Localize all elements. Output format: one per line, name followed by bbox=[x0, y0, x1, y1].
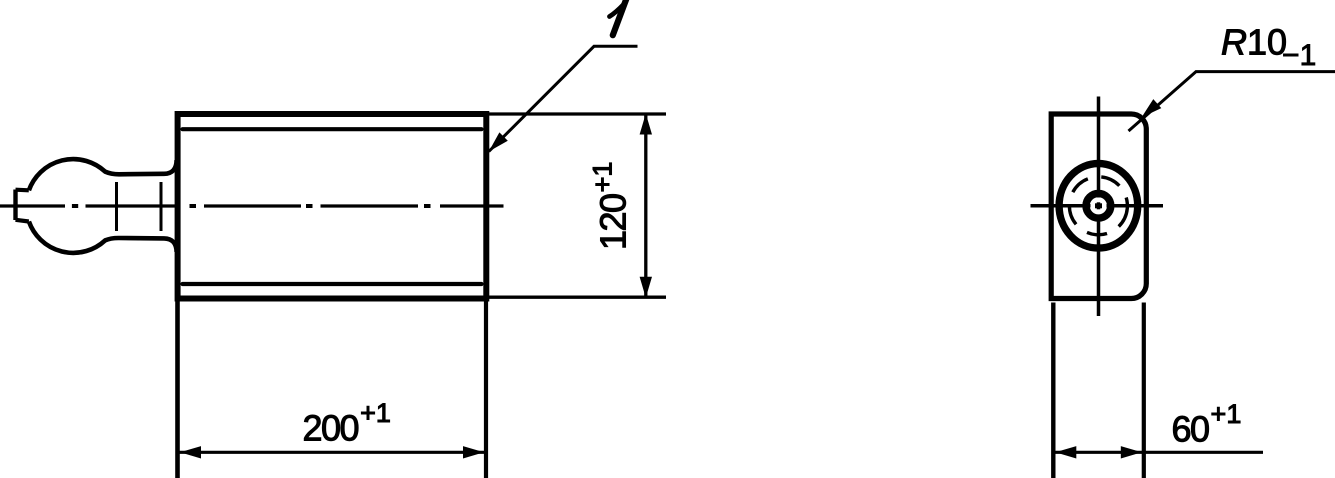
leader line for item 1 bbox=[489, 46, 638, 151]
body outline (rectangle 200x120) bbox=[178, 114, 487, 299]
dimension 60: left extension line bbox=[1051, 303, 1055, 478]
ball flat (left face) bbox=[13, 190, 17, 221]
dimension 200: left extension line bbox=[175, 302, 180, 478]
dimension 120: dimension line bbox=[644, 114, 647, 297]
dimension 120: top extension line bbox=[489, 112, 666, 115]
dimension 120: bottom extension line bbox=[489, 296, 666, 299]
inner bottom silhouette line bbox=[183, 282, 482, 286]
dimension 60: left arrowhead bbox=[1055, 446, 1076, 458]
small inner circle bbox=[1086, 193, 1111, 218]
item number 1 bbox=[610, 0, 627, 35]
center dot (dash-dot crossing) bbox=[1095, 203, 1102, 208]
dimension 200: right arrowhead bbox=[463, 446, 484, 458]
dimension 60: right extension line bbox=[1142, 303, 1146, 478]
leader line for R10 bbox=[1129, 72, 1335, 131]
vertical center line bbox=[1097, 97, 1101, 317]
dimension 60: right arrowhead bbox=[1121, 446, 1142, 458]
neck edge line 2 bbox=[160, 182, 163, 231]
leader arrowhead bbox=[489, 132, 508, 151]
R10 leader arrowhead bbox=[1142, 99, 1162, 117]
hidden (dashed) circle bbox=[1067, 174, 1130, 237]
horizontal center line bbox=[1031, 204, 1164, 208]
flat bottom chamfer bbox=[16, 220, 29, 222]
dimension 60: dimension line with tail bbox=[1053, 451, 1263, 454]
neck edge line 1 bbox=[115, 182, 118, 231]
ball bottom silhouette + neck bottom + fillet into body bbox=[29, 222, 177, 253]
dimension 120: top arrowhead bbox=[640, 114, 652, 135]
dimension 200: left arrowhead bbox=[180, 446, 201, 458]
ball top silhouette + neck top + fillet into body bbox=[29, 159, 177, 190]
dimension 120: bottom arrowhead bbox=[640, 277, 652, 298]
inner top silhouette line bbox=[183, 127, 482, 131]
flat top chamfer bbox=[16, 188, 29, 193]
dimension 200: dimension line bbox=[178, 451, 486, 454]
ball outer circle bbox=[1059, 164, 1138, 249]
dimension 200: right extension line bbox=[484, 302, 488, 478]
end view outline (rounded right corners R10) bbox=[1051, 114, 1146, 299]
horizontal center line (dash-dot) bbox=[0, 204, 504, 207]
